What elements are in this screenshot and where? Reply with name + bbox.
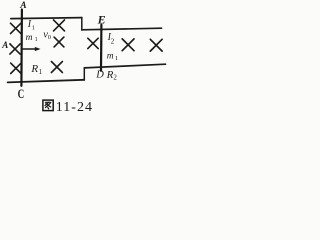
svg-text:1: 1 [115, 55, 118, 62]
svg-text:1: 1 [39, 68, 43, 76]
field symbol x B1 near rod bottom [11, 63, 21, 73]
conducting rod ED [100, 25, 103, 71]
svg-text:C: C [18, 87, 25, 101]
svg-text:E: E [97, 13, 106, 27]
field symbol x B1 near rod top [11, 23, 21, 33]
velocity arrow v0 on rod AC [23, 47, 41, 51]
field symbol x B1 near rod middle [10, 44, 20, 54]
current label I2 [107, 32, 115, 45]
svg-text:m: m [107, 51, 114, 61]
field symbol x B2 right [150, 39, 162, 51]
mass label m1 (rod ED) [107, 51, 118, 62]
field symbol x B1 mid column bottom [51, 62, 62, 73]
field symbol x B2 left of rod ED [88, 38, 98, 48]
field symbol x B1 mid column top [54, 20, 65, 31]
svg-text:11-24: 11-24 [56, 100, 93, 114]
svg-text:D: D [95, 70, 104, 81]
svg-text:1: 1 [32, 24, 35, 31]
wire bottom rail left circuit [8, 80, 85, 83]
caption CJK character tu (figure) [43, 100, 53, 111]
svg-text:R: R [30, 63, 38, 75]
svg-text:m: m [26, 33, 33, 43]
wire top rail right circuit [82, 28, 162, 30]
resistor label R1 [30, 63, 42, 76]
svg-text:2: 2 [111, 37, 115, 45]
resistor label R2 [106, 69, 118, 82]
field symbol x B2 middle [122, 39, 134, 51]
mass label m1 (rod AC) [26, 33, 38, 43]
wire step vertical top (corner) [81, 17, 83, 30]
svg-text:2: 2 [113, 73, 117, 81]
svg-text:0: 0 [48, 34, 51, 41]
wire top rail left circuit [11, 18, 82, 19]
current label I1 [27, 19, 35, 31]
conducting rod AC [20, 10, 23, 86]
dot after left label A [10, 43, 12, 45]
field symbol x B1 mid column middle [54, 37, 64, 47]
wire bottom rail right circuit [84, 64, 165, 68]
velocity label v0 [43, 30, 51, 41]
svg-text:R: R [106, 69, 114, 81]
svg-text:1: 1 [35, 37, 38, 43]
svg-text:A: A [19, 1, 26, 11]
wire step vertical bottom (corner) [83, 68, 85, 80]
svg-text:A: A [1, 40, 8, 50]
